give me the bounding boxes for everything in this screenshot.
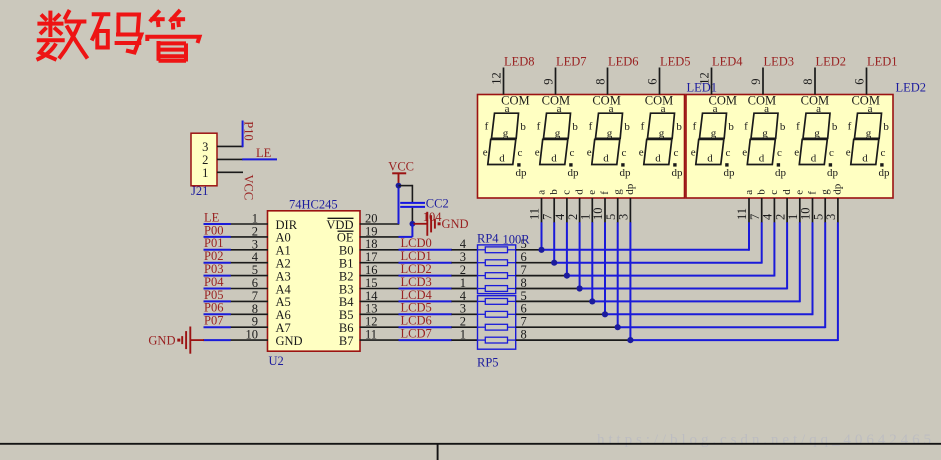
svg-text:104: 104 [423, 210, 443, 224]
svg-text:b: b [756, 189, 768, 195]
junction segment a [538, 247, 544, 253]
overline on VDD [328, 217, 354, 219]
resistor element 1 in RP [485, 247, 507, 253]
wire net P10 (vertical) [242, 121, 244, 148]
svg-text:19: 19 [365, 224, 378, 238]
svg-text:GND: GND [276, 334, 303, 348]
svg-text:OE: OE [337, 231, 354, 245]
svg-text:LED6: LED6 [608, 55, 639, 69]
svg-text:LED3: LED3 [764, 55, 795, 69]
resistor network RP4 body [478, 245, 516, 294]
svg-text:f: f [693, 120, 697, 132]
svg-text:GND: GND [148, 334, 175, 348]
RP right pin lead row 6 [516, 313, 605, 315]
junction segment g [615, 324, 621, 330]
svg-text:B6: B6 [339, 321, 354, 335]
svg-text:14: 14 [365, 289, 378, 303]
svg-text:6: 6 [853, 79, 867, 85]
junction segment b [551, 260, 557, 266]
LED1 segment pin e lead [591, 198, 593, 223]
svg-text:LED2: LED2 [816, 55, 847, 69]
LED2 segment pin c lead [773, 198, 775, 223]
svg-text:b: b [548, 189, 560, 195]
svg-text:GND: GND [442, 217, 469, 231]
svg-text:P10: P10 [242, 121, 256, 140]
svg-text:dp: dp [672, 167, 684, 179]
svg-text:c: c [829, 147, 834, 159]
wire LED2 segment dp drop [837, 222, 839, 341]
svg-text:RP4: RP4 [477, 232, 499, 246]
LED2 segment pin b lead [761, 198, 763, 223]
svg-text:b: b [780, 121, 786, 133]
svg-text:g: g [819, 189, 831, 195]
U2 pin 18 lead [360, 249, 400, 251]
connector J21 body [191, 133, 217, 186]
display module LED2 body [686, 95, 893, 199]
svg-text:d: d [781, 189, 793, 195]
wire net P07 [204, 326, 231, 328]
svg-text:8: 8 [801, 79, 815, 85]
svg-text:e: e [586, 190, 598, 195]
wire net LCD1 [399, 262, 453, 264]
svg-text:dp: dp [516, 167, 528, 179]
svg-text:g: g [555, 127, 561, 139]
wire LED1 segment d drop [579, 222, 581, 288]
svg-text:d: d [603, 152, 609, 164]
svg-text:15: 15 [365, 276, 378, 290]
svg-text:LE: LE [256, 146, 272, 160]
LED1 7-segment digit 4 glyph [639, 103, 683, 179]
LED1 segment pin d lead [579, 198, 581, 223]
ground symbol near CC2 [414, 212, 441, 236]
svg-text:dp: dp [568, 167, 580, 179]
resistor element 5 in RP [485, 299, 507, 305]
RP pin lead left row 3 [451, 288, 477, 290]
svg-text:VCC: VCC [241, 175, 255, 201]
J21 pin 3 lead [217, 145, 243, 147]
LED2 7-segment digit 4 glyph [846, 103, 890, 179]
wire net P01 [204, 249, 231, 251]
U2 pin 5 lead [230, 275, 268, 277]
svg-text:c: c [569, 147, 574, 159]
wire net P05 [204, 300, 231, 302]
svg-text:1: 1 [460, 328, 466, 342]
RP right pin lead row 3 [516, 275, 567, 277]
svg-text:1: 1 [460, 276, 466, 290]
svg-text:8: 8 [252, 302, 258, 316]
svg-text:A5: A5 [276, 295, 291, 309]
svg-text:LED4: LED4 [712, 55, 743, 69]
svg-text:d: d [499, 152, 505, 164]
svg-text:LCD3: LCD3 [401, 275, 432, 289]
svg-text:A1: A1 [276, 244, 291, 258]
svg-text:3: 3 [202, 140, 208, 154]
svg-text:d: d [707, 152, 713, 164]
wire segment-c bus row [567, 275, 775, 277]
wire segment-g bus row [618, 326, 826, 328]
svg-text:A4: A4 [276, 282, 292, 296]
LED1 COM pin 8 lead [607, 68, 609, 95]
svg-text:a: a [505, 103, 510, 115]
U2 pin 12 lead [360, 326, 400, 328]
wire LED1 segment b drop [553, 222, 555, 262]
svg-text:d: d [551, 152, 557, 164]
svg-text:B4: B4 [339, 295, 354, 309]
LED2 segment pin dp lead [837, 198, 839, 223]
U2 pin 6 lead [230, 288, 268, 290]
LED1 COM pin 9 lead [555, 68, 557, 95]
U2 pin 3 lead [230, 249, 268, 251]
wire segment-f bus row [605, 313, 813, 315]
wire segment-dp bus row [630, 339, 838, 341]
wire net LCD3 [399, 288, 453, 290]
U2 pin 19 lead [360, 236, 400, 238]
svg-text:e: e [794, 146, 799, 158]
wire net LCD4 [399, 300, 453, 302]
svg-text:f: f [485, 120, 489, 132]
wire LED1 segment dp drop [629, 222, 631, 340]
svg-text:b: b [572, 121, 578, 133]
svg-text:dp: dp [827, 167, 839, 179]
junction segment e [589, 298, 595, 304]
wire net P06 [204, 313, 231, 315]
svg-text:COM: COM [645, 94, 673, 108]
wire segment-d bus row [580, 288, 788, 290]
svg-text:LCD4: LCD4 [401, 288, 433, 302]
svg-text:9: 9 [252, 315, 258, 329]
svg-text:3: 3 [617, 214, 631, 220]
svg-text:g: g [612, 189, 624, 195]
svg-text:20: 20 [365, 211, 378, 225]
LED2 COM pin 6 lead [866, 68, 868, 95]
U2 pin 2 lead [230, 236, 268, 238]
wire LED1 segment g drop [617, 222, 619, 327]
svg-text:f: f [589, 120, 593, 132]
LED2 7-segment digit 1 glyph [691, 103, 735, 179]
svg-text:COM: COM [592, 94, 620, 108]
capacitor CC2 plates [400, 203, 425, 207]
svg-text:2: 2 [202, 153, 208, 167]
svg-text:dp: dp [775, 167, 787, 179]
svg-text:d: d [573, 189, 585, 195]
svg-text:g: g [866, 127, 872, 139]
svg-text:a: a [713, 103, 718, 115]
svg-text:f: f [744, 120, 748, 132]
svg-text:CC2: CC2 [426, 197, 449, 211]
svg-text:COM: COM [851, 94, 879, 108]
svg-text:P04: P04 [204, 275, 224, 289]
LED2 segment pin e lead [799, 198, 801, 223]
svg-text:f: f [537, 120, 541, 132]
svg-text:P03: P03 [204, 262, 223, 276]
svg-text:A6: A6 [276, 308, 291, 322]
svg-text:f: f [599, 191, 611, 195]
svg-text:A7: A7 [276, 321, 291, 335]
resistor element 3 in RP [485, 273, 507, 279]
svg-text:e: e [742, 146, 747, 158]
LED1 7-segment digit 1 glyph [483, 103, 527, 179]
title 数码管 (red heading) [37, 10, 200, 62]
RP right pin lead row 2 [516, 262, 555, 264]
svg-text:c: c [621, 147, 626, 159]
svg-text:https://blog.csdn.net/qq_40642: https://blog.csdn.net/qq_40642465 [597, 431, 935, 448]
svg-text:dp: dp [879, 167, 891, 179]
svg-text:11: 11 [365, 328, 377, 342]
svg-text:dp: dp [624, 183, 636, 195]
wire LED2 segment a drop [748, 222, 750, 250]
junction segment c [564, 273, 570, 279]
wire net P04 [204, 288, 231, 290]
svg-text:LCD7: LCD7 [401, 327, 432, 341]
svg-text:LED2: LED2 [896, 81, 927, 95]
wire U2 pin10 to GND [203, 339, 231, 341]
RP pin lead left row 2 [451, 275, 477, 277]
svg-text:B0: B0 [339, 244, 354, 258]
svg-text:LED5: LED5 [660, 55, 691, 69]
LED2 segment pin a lead [748, 198, 750, 223]
svg-text:6: 6 [646, 79, 660, 85]
LED1 segment pin f lead [604, 198, 606, 223]
svg-text:LED7: LED7 [556, 55, 587, 69]
wire net P02 [204, 262, 231, 264]
sheet border divider [437, 444, 439, 460]
svg-text:LED8: LED8 [504, 55, 535, 69]
svg-text:dp: dp [724, 167, 736, 179]
svg-text:A3: A3 [276, 269, 291, 283]
svg-text:g: g [503, 127, 509, 139]
svg-text:LE: LE [204, 210, 220, 224]
RP pin lead left row 0 [451, 249, 477, 251]
RP right pin lead row 4 [516, 288, 580, 290]
svg-text:VCC: VCC [388, 160, 414, 174]
wire LED2 segment e drop [799, 222, 801, 302]
wire LED2 segment b drop [761, 222, 763, 263]
LED2 COM pin 8 lead [814, 68, 816, 95]
svg-text:d: d [811, 152, 817, 164]
svg-text:c: c [561, 190, 573, 195]
U2 pin 15 lead [360, 288, 400, 290]
svg-text:3: 3 [252, 237, 258, 251]
junction segment d [577, 285, 583, 291]
LED1 COM pin 6 lead [659, 68, 661, 95]
svg-text:P06: P06 [204, 301, 223, 315]
LED1 segment pin c lead [566, 198, 568, 223]
RP right pin lead row 1 [516, 249, 542, 251]
RP right pin lead row 7 [516, 326, 618, 328]
svg-text:100R: 100R [503, 233, 531, 247]
svg-text:P01: P01 [204, 236, 223, 250]
ground symbol at U2 pin 10 [177, 327, 204, 354]
svg-text:b: b [728, 121, 734, 133]
svg-text:A0: A0 [276, 231, 291, 245]
wire net LCD7 [399, 339, 453, 341]
svg-text:18: 18 [365, 237, 378, 251]
svg-text:7: 7 [252, 289, 258, 303]
junction segment f [602, 311, 608, 317]
IC U2 74HC245 body [268, 211, 361, 351]
svg-text:2: 2 [460, 315, 466, 329]
svg-text:P00: P00 [204, 223, 223, 237]
svg-text:dp: dp [620, 167, 632, 179]
power symbol VCC [392, 173, 406, 186]
svg-text:e: e [846, 146, 851, 158]
wire segment-e bus row [592, 300, 800, 302]
svg-text:c: c [517, 147, 522, 159]
resistor network RP5 body [478, 296, 516, 350]
svg-text:8: 8 [594, 79, 608, 85]
svg-text:a: a [609, 103, 614, 115]
J21 pin 1 lead [217, 171, 243, 173]
svg-text:B3: B3 [339, 282, 354, 296]
svg-text:B2: B2 [339, 269, 354, 283]
svg-text:d: d [759, 152, 765, 164]
svg-text:e: e [587, 146, 592, 158]
svg-text:12: 12 [365, 315, 378, 329]
LED2 segment pin g lead [824, 198, 826, 223]
svg-text:LCD2: LCD2 [401, 262, 432, 276]
wire segment-a bus row [542, 249, 750, 251]
svg-text:g: g [659, 127, 665, 139]
LED1 segment pin dp lead [629, 198, 631, 223]
svg-text:U2: U2 [269, 354, 284, 368]
svg-text:2: 2 [252, 224, 258, 238]
LED2 COM pin 12 lead [711, 68, 713, 95]
svg-text:9: 9 [542, 79, 556, 85]
wire LED2 segment f drop [812, 222, 814, 315]
LED2 7-segment digit 2 glyph [742, 103, 786, 179]
LED1 segment pin g lead [617, 198, 619, 223]
junction segment dp [627, 337, 633, 343]
svg-text:LED1: LED1 [867, 55, 898, 69]
svg-text:a: a [816, 103, 821, 115]
LED2 segment pin d lead [786, 198, 788, 223]
svg-text:VDD: VDD [326, 218, 353, 232]
LED1 7-segment digit 3 glyph [587, 103, 631, 179]
svg-text:c: c [880, 147, 885, 159]
RP right pin lead row 8 [516, 339, 631, 341]
wire net LE from J21 [242, 158, 277, 160]
resistor element 7 in RP [485, 324, 507, 330]
U2 pin 17 lead [360, 262, 400, 264]
RP pin lead left row 1 [451, 262, 477, 264]
J21 pin 2 lead [217, 158, 243, 160]
RP pin lead left row 7 [451, 339, 477, 341]
svg-text:16: 16 [365, 263, 378, 277]
wire LED1 segment f drop [604, 222, 606, 314]
svg-text:1: 1 [202, 166, 208, 180]
svg-text:P07: P07 [204, 314, 223, 328]
svg-text:3: 3 [460, 250, 466, 264]
svg-text:f: f [641, 120, 645, 132]
RP right pin lead row 5 [516, 300, 593, 302]
LED1 COM pin 12 lead [503, 68, 505, 95]
svg-text:P02: P02 [204, 249, 223, 263]
svg-text:2: 2 [460, 263, 466, 277]
svg-text:5: 5 [252, 263, 258, 277]
wire LED2 segment g drop [824, 222, 826, 328]
svg-text:J21: J21 [191, 184, 208, 198]
svg-text:B1: B1 [339, 257, 354, 271]
wire net LCD6 [399, 326, 453, 328]
svg-text:a: a [661, 103, 666, 115]
svg-text:f: f [796, 120, 800, 132]
svg-text:g: g [762, 127, 768, 139]
LED1 segment pin b lead [553, 198, 555, 223]
resistor element 2 in RP [485, 260, 507, 266]
U2 pin 10 lead [230, 339, 268, 341]
LED2 segment pin f lead [812, 198, 814, 223]
svg-text:1: 1 [252, 212, 258, 226]
svg-text:9: 9 [749, 79, 763, 85]
wire net LCD2 [399, 275, 453, 277]
wire LED1 segment c drop [566, 222, 568, 275]
wire segment-b bus row [554, 262, 762, 264]
svg-text:A2: A2 [276, 257, 291, 271]
LED2 COM pin 9 lead [762, 68, 764, 95]
svg-text:e: e [691, 146, 696, 158]
U2 pin 8 lead [230, 313, 268, 315]
U2 pin 16 lead [360, 275, 400, 277]
svg-text:P05: P05 [204, 288, 223, 302]
svg-text:LCD0: LCD0 [401, 236, 432, 250]
svg-text:6: 6 [252, 276, 258, 290]
wire to capacitor CC2 [399, 185, 413, 187]
U2 pin 13 lead [360, 313, 400, 315]
svg-text:dp: dp [832, 183, 844, 195]
LED1 7-segment digit 2 glyph [535, 103, 579, 179]
wire LED2 segment c drop [773, 222, 775, 276]
svg-text:b: b [883, 121, 889, 133]
svg-text:e: e [639, 146, 644, 158]
wire net P00 [204, 236, 231, 238]
LED1 segment pin a lead [541, 198, 543, 223]
svg-text:c: c [673, 147, 678, 159]
svg-text:f: f [806, 191, 818, 195]
svg-text:DIR: DIR [276, 218, 298, 232]
RP pin lead left row 5 [451, 313, 477, 315]
U2 pin 20 lead [360, 223, 400, 225]
resistor element 4 in RP [485, 286, 507, 292]
svg-text:LCD5: LCD5 [401, 301, 432, 315]
svg-text:B5: B5 [339, 308, 354, 322]
svg-text:B7: B7 [339, 334, 354, 348]
wire LED2 segment d drop [786, 222, 788, 289]
svg-text:g: g [711, 127, 717, 139]
svg-text:17: 17 [365, 250, 378, 264]
svg-text:12: 12 [698, 72, 712, 85]
wire net LCD5 [399, 313, 453, 315]
display module LED1 body [478, 95, 685, 199]
wire LED1 segment e drop [591, 222, 593, 301]
wire net LCD0 [399, 249, 453, 251]
U2 pin 4 lead [230, 262, 268, 264]
junction CC2/GND/OE node [410, 221, 416, 227]
svg-text:13: 13 [365, 302, 378, 316]
svg-text:3: 3 [460, 302, 466, 316]
svg-text:b: b [832, 121, 838, 133]
wire net LE [204, 223, 231, 225]
svg-text:4: 4 [460, 237, 467, 251]
wire LED1 segment a drop [541, 222, 543, 250]
svg-text:LCD1: LCD1 [401, 249, 432, 263]
svg-text:c: c [725, 147, 730, 159]
U2 pin 14 lead [360, 300, 400, 302]
svg-text:e: e [794, 190, 806, 195]
U2 pin 7 lead [230, 300, 268, 302]
svg-text:b: b [624, 121, 630, 133]
RP pin lead left row 6 [451, 326, 477, 328]
resistor element 8 in RP [485, 337, 507, 343]
